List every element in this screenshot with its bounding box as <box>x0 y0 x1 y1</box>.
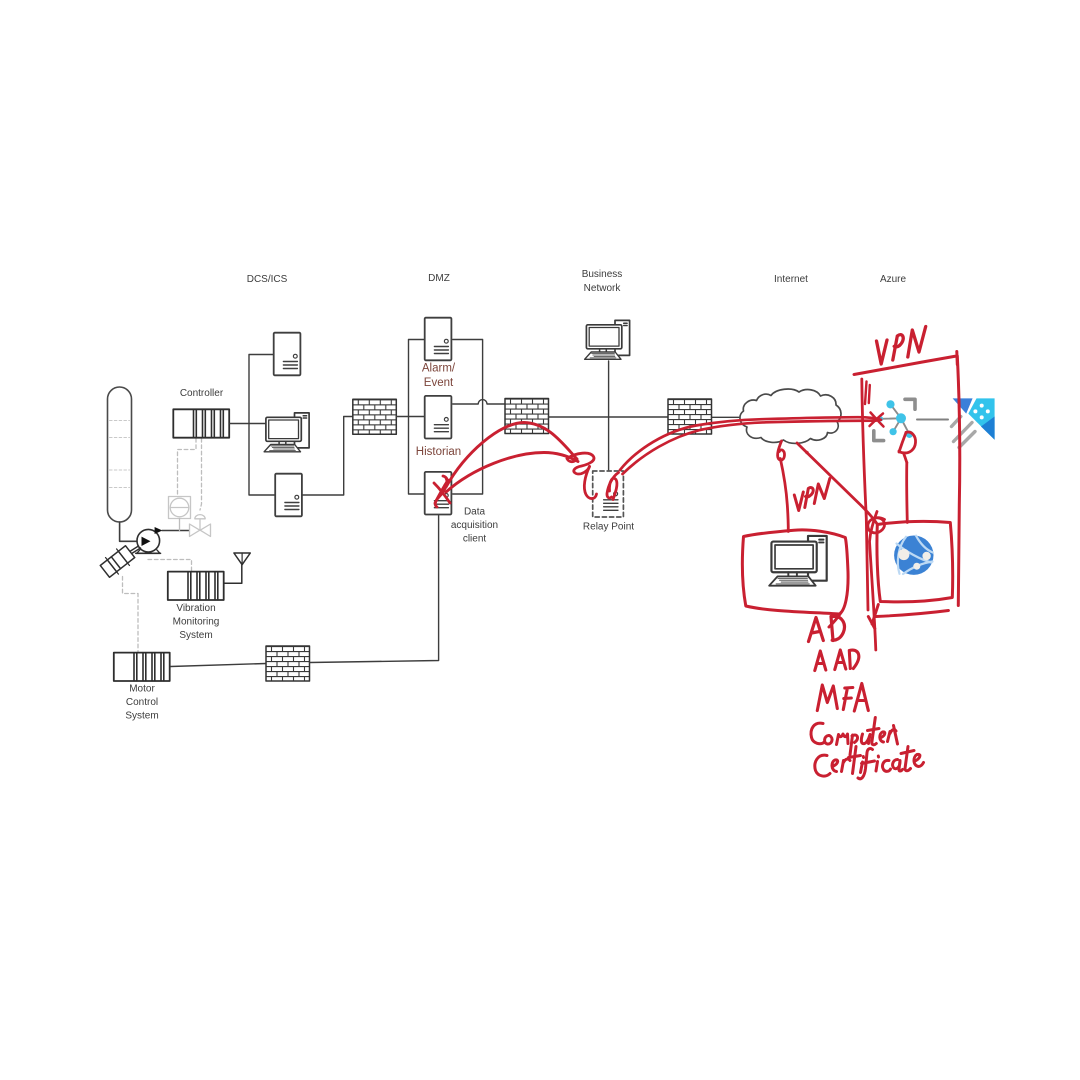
svg-text:Relay Point: Relay Point <box>583 522 634 533</box>
DMZ right rail <box>453 340 483 495</box>
red handwriting A AD <box>815 650 859 671</box>
workstation DCS <box>264 413 309 452</box>
server DCS-1 <box>274 333 301 376</box>
svg-text:Controller: Controller <box>180 388 224 399</box>
red VPN box top edge <box>854 352 957 375</box>
wire FW4 to data acquisition client <box>310 516 439 663</box>
firewall FW1 <box>353 399 397 434</box>
red inner box around globe <box>877 521 953 601</box>
svg-text:System: System <box>179 630 212 641</box>
svg-text:Business: Business <box>582 269 623 280</box>
internet cloud <box>740 389 841 443</box>
server Data acquisition client <box>425 472 498 545</box>
svg-text:acquisition: acquisition <box>451 520 498 531</box>
pump P1 <box>136 527 163 553</box>
red tangle knot left of globe box <box>868 512 885 651</box>
svg-text:Event: Event <box>424 377 454 389</box>
workstation Business Network <box>585 320 630 359</box>
motor control system PLC <box>114 653 170 722</box>
red VPN box left edge <box>862 379 870 610</box>
red VPN box right edge <box>957 356 959 606</box>
svg-text:Network: Network <box>584 283 622 294</box>
svg-text:Vibration: Vibration <box>176 603 215 614</box>
red crossing scribble at molecule <box>870 413 884 427</box>
svg-text:DMZ: DMZ <box>428 273 450 284</box>
red lambda scribble at relay <box>607 473 619 500</box>
DMZ left rail <box>409 340 425 495</box>
red arc data acq to relay (tall) <box>446 423 577 488</box>
svg-text:Data: Data <box>464 507 486 518</box>
red scribble X over data acquisition client <box>434 476 450 507</box>
wire pump outlet to valve <box>162 530 190 532</box>
red knot at relay point <box>567 453 597 498</box>
SECTION-LABELS <box>247 269 907 294</box>
azure DPS logo <box>952 398 995 447</box>
red arc relay to cloud (lower) <box>623 421 877 474</box>
red handwriting MFA <box>817 684 868 712</box>
wire BN workstation to Relay Point <box>608 361 610 471</box>
server Alarm/Event <box>422 318 456 389</box>
dashed control line controller to instrument <box>178 439 197 497</box>
red dot <box>805 451 809 455</box>
wire Historian to firewall FW2 with hop <box>453 400 505 404</box>
wire controller to DCS computer <box>230 423 267 425</box>
azure virtual network globe <box>894 536 933 575</box>
red delta scribble below molecule <box>899 432 916 462</box>
wire MCS to firewall FW4 <box>171 664 266 667</box>
red handwriting Computer <box>811 718 897 756</box>
server Historian <box>416 396 461 458</box>
firewall FW3 <box>668 399 712 434</box>
svg-text:Motor: Motor <box>129 684 155 695</box>
firewall FW4 <box>266 646 310 681</box>
red line delta to globe box <box>905 463 908 523</box>
vibration monitoring system PLC <box>168 572 224 641</box>
red handwriting Certificate <box>815 747 924 779</box>
svg-text:Monitoring: Monitoring <box>173 617 220 628</box>
red arc relay to cloud (upper) <box>620 417 881 470</box>
red ink annotations <box>434 327 960 779</box>
antenna <box>224 553 250 583</box>
dashed line pump to vibration monitoring system <box>148 560 192 572</box>
svg-text:Azure: Azure <box>880 274 907 285</box>
svg-text:client: client <box>463 534 487 545</box>
red handwriting A D <box>809 616 845 641</box>
relay point dashed server <box>583 471 634 533</box>
instrument (gray) <box>169 497 191 531</box>
svg-text:Internet: Internet <box>774 274 808 285</box>
wire FW3 to internet cloud <box>712 416 749 418</box>
svg-text:Control: Control <box>126 697 158 708</box>
red diagonal cloud to tangle <box>797 443 878 525</box>
workstation remote user <box>769 536 827 586</box>
controller PLC <box>173 388 229 438</box>
firewall FW2 <box>505 399 549 434</box>
wire FW2 to firewall FW3 <box>549 416 669 418</box>
svg-text:DCS/ICS: DCS/ICS <box>247 274 288 285</box>
motor M1 <box>98 543 140 579</box>
control valve (gray) <box>190 515 211 537</box>
red arc data acq to relay (flat) <box>446 453 578 493</box>
wire FW1 to Historian <box>397 416 425 418</box>
dashed line motor to motor control system <box>123 577 139 653</box>
red VPN box bottom edge with arrow <box>868 605 948 629</box>
DCS rail wire <box>249 355 275 496</box>
red box around remote workstation <box>742 530 848 627</box>
red handwriting VPN top <box>877 327 926 365</box>
wire DCS-2 to firewall FW1 <box>302 417 353 496</box>
azure vnet molecule icon <box>874 399 948 440</box>
svg-text:Historian: Historian <box>416 446 461 458</box>
red loop below cloud and line to laptop box <box>778 441 789 532</box>
column vessel <box>108 387 132 522</box>
red handwriting VPN middle <box>794 479 830 511</box>
server DCS-2 <box>275 474 302 517</box>
dashed control line controller to valve <box>200 439 202 511</box>
svg-text:System: System <box>125 711 158 722</box>
svg-text:Alarm/: Alarm/ <box>422 363 456 375</box>
wire column to pump <box>120 522 141 541</box>
